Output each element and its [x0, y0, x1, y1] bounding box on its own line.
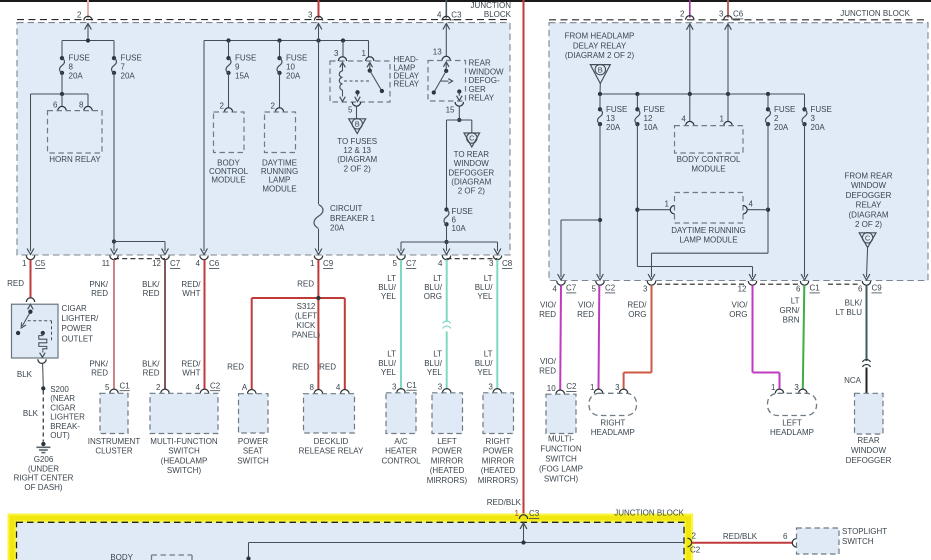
svg-text:BREAK-: BREAK-: [50, 422, 80, 431]
svg-text:(HEADLAMP: (HEADLAMP: [161, 456, 208, 465]
wire pin 5 to triangle B: [356, 106, 358, 119]
connector 1 C5: [22, 256, 46, 269]
junction block 1 body: [17, 23, 510, 255]
label RED power seat wire: [227, 363, 244, 372]
arrow into junction block at connector 2: [85, 24, 92, 41]
connector 2 jb2: [680, 10, 694, 20]
splice S312: [292, 296, 321, 340]
svg-text:CONTROL: CONTROL: [381, 456, 421, 465]
svg-text:FROM REAR: FROM REAR: [845, 172, 893, 181]
svg-text:WINDOW: WINDOW: [851, 446, 887, 455]
wire fuse 8 branch to connector 1 C5: [27, 94, 34, 255]
svg-text:3: 3: [308, 11, 313, 20]
svg-text:FUSE: FUSE: [69, 54, 90, 63]
decklid release relay pin 4: [336, 383, 349, 394]
svg-text:RED: RED: [577, 310, 594, 319]
svg-text:SEAT: SEAT: [243, 447, 263, 456]
svg-text:20A: 20A: [69, 72, 84, 81]
svg-text:DECKLID: DECKLID: [314, 437, 349, 446]
left power mirror pin 3: [438, 382, 451, 393]
svg-text:S312: S312: [297, 302, 316, 311]
svg-text:2: 2: [220, 101, 225, 110]
svg-text:C7: C7: [170, 259, 181, 268]
svg-text:JUNCTION BLOCK: JUNCTION BLOCK: [614, 509, 684, 518]
junction block 2 connector strip dashed line: [549, 19, 928, 21]
svg-text:RED: RED: [227, 363, 244, 372]
svg-text:DEFOGGER: DEFOGGER: [846, 191, 892, 200]
wire pin 15 tee to fuse 6 and triangle C: [447, 106, 472, 209]
svg-text:LT: LT: [484, 274, 493, 283]
svg-text:OUT): OUT): [50, 431, 70, 440]
wire RED feed to connector 2: [87, 0, 89, 18]
svg-text:SWITCH): SWITCH): [167, 466, 202, 475]
svg-text:4: 4: [749, 200, 754, 209]
body control module jb2 pin 4: [681, 114, 694, 125]
svg-text:LT: LT: [387, 274, 396, 283]
svg-text:STOPLIGHT: STOPLIGHT: [842, 527, 887, 536]
svg-text:20A: 20A: [121, 72, 136, 81]
svg-text:RELAY: RELAY: [394, 80, 420, 89]
svg-text:LT: LT: [791, 297, 800, 306]
stoplight switch: [797, 527, 888, 554]
multi-function switch fog lamp switch: [539, 394, 583, 483]
rear window defogger: [846, 393, 892, 465]
svg-text:A/C: A/C: [394, 437, 408, 446]
svg-text:12: 12: [152, 259, 161, 268]
svg-text:RIGHT: RIGHT: [486, 437, 511, 446]
wire bus drops jb2: [600, 94, 805, 122]
label to rear window defogger: [448, 150, 494, 195]
svg-text:MIRRORS): MIRRORS): [427, 476, 468, 485]
svg-text:6: 6: [783, 532, 788, 541]
svg-text:C6: C6: [733, 10, 744, 19]
svg-text:6: 6: [796, 285, 801, 294]
decklid release relay: [299, 394, 364, 456]
wire LT BLU/ORG connector 4 to left power mirror: [424, 260, 447, 390]
wire fuse 12 to daytime running lamp module jb2: [635, 124, 670, 266]
svg-text:RED/: RED/: [181, 359, 201, 368]
svg-text:FUSE: FUSE: [774, 105, 795, 114]
svg-text:WINDOW: WINDOW: [454, 159, 490, 168]
svg-text:3: 3: [719, 10, 724, 19]
svg-text:3: 3: [794, 383, 799, 392]
svg-text:GRN/: GRN/: [780, 306, 801, 315]
connector 3 C8: [489, 256, 513, 269]
connector 5 C2 jb2: [592, 281, 616, 294]
svg-text:TO REAR: TO REAR: [454, 150, 490, 159]
wire LT BLU/YEL connector 5 C7 to ac heater control: [378, 260, 401, 390]
svg-text:SWITCH: SWITCH: [168, 447, 200, 456]
wire fuse 3 to connector 6 C1 jb2: [801, 124, 808, 280]
rear window defogger relay switch: [432, 62, 462, 101]
svg-text:G206: G206: [34, 455, 54, 464]
svg-text:3: 3: [392, 382, 397, 391]
svg-text:(DIAGRAM 2 OF 2): (DIAGRAM 2 OF 2): [565, 51, 635, 60]
svg-text:FUSE: FUSE: [286, 54, 307, 63]
svg-text:12: 12: [738, 285, 747, 294]
svg-text:S200: S200: [50, 385, 69, 394]
svg-text:(DIAGRAM: (DIAGRAM: [451, 177, 491, 186]
svg-text:(HEATED: (HEATED: [430, 466, 465, 475]
body control module jb2 pin 1: [720, 114, 733, 125]
svg-text:BLU/: BLU/: [424, 359, 443, 368]
svg-text:SWITCH: SWITCH: [842, 537, 874, 546]
right power mirror pin 3: [488, 382, 501, 393]
wire bus to fuses 8 and 7: [62, 38, 114, 58]
svg-text:FUSE: FUSE: [644, 105, 665, 114]
svg-text:MULTI-FUNCTION: MULTI-FUNCTION: [150, 437, 218, 446]
svg-text:ORG: ORG: [628, 310, 646, 319]
junction block 2 label: [840, 9, 910, 18]
connector 2 C2 jb3: [688, 532, 701, 555]
svg-text:NCA: NCA: [844, 376, 862, 385]
left power mirror: [427, 393, 468, 485]
connector C7 bracket: [114, 258, 165, 260]
svg-text:5: 5: [592, 285, 597, 294]
svg-text:WHT: WHT: [182, 289, 200, 298]
stoplight switch pin: [792, 539, 796, 547]
body control module jb2: [675, 126, 744, 174]
svg-text:4: 4: [196, 259, 201, 268]
headlamp delay relay coil: [339, 63, 345, 102]
svg-text:RED: RED: [91, 289, 108, 298]
cigar lighter pin: [26, 298, 34, 302]
svg-text:C7: C7: [406, 259, 417, 268]
wire RED/BLK main feed to junction block 3: [487, 0, 524, 516]
svg-text:RELEASE RELAY: RELEASE RELAY: [299, 447, 364, 456]
svg-text:BLOCK: BLOCK: [484, 10, 512, 19]
svg-text:15: 15: [446, 106, 455, 115]
svg-text:5: 5: [348, 106, 353, 115]
svg-text:C7: C7: [566, 284, 577, 293]
svg-text:MULTI-: MULTI-: [548, 434, 574, 443]
svg-text:LEFT: LEFT: [782, 418, 802, 427]
wire fuse 6 to connectors 5 4 3: [398, 224, 501, 254]
junction block 1 label: [471, 1, 512, 19]
svg-text:DEFOGGER: DEFOGGER: [846, 456, 892, 465]
svg-text:FUSE: FUSE: [606, 105, 627, 114]
wire connector 3 to circuit breaker 1: [318, 24, 320, 205]
svg-text:VIO/: VIO/: [578, 301, 595, 310]
connector 6 C1 jb2: [796, 281, 820, 294]
svg-text:C5: C5: [35, 259, 46, 268]
svg-text:RED/BLK: RED/BLK: [487, 498, 522, 507]
svg-text:2 OF 2): 2 OF 2): [344, 164, 371, 173]
ground G206 label: [14, 455, 74, 492]
svg-text:FUSE: FUSE: [811, 105, 832, 114]
svg-text:C3: C3: [529, 509, 540, 518]
svg-text:BODY CONTROL: BODY CONTROL: [677, 155, 741, 164]
label RED decklid wire 8: [292, 363, 309, 372]
ac heater control pin 3 C1: [392, 381, 417, 393]
off-page triangle B jb2: [590, 64, 610, 83]
svg-text:3: 3: [488, 382, 493, 391]
daytime running lamp module pin 2: [271, 101, 284, 112]
wire fuse 13 to connectors 4 and 5 jb2: [558, 124, 604, 280]
svg-text:8: 8: [69, 63, 74, 72]
daytime running lamp module jb2 pin 1: [665, 200, 675, 214]
body control module jb1: [209, 112, 249, 185]
svg-text:4: 4: [437, 11, 442, 20]
svg-text:VIO/: VIO/: [540, 357, 557, 366]
connector 12 C7: [152, 256, 181, 269]
wire BLK S200 to ground: [23, 391, 43, 442]
left headlamp pin 3: [794, 383, 807, 394]
svg-text:(HEATED: (HEATED: [481, 466, 516, 475]
wire fuse 12 to connector 12 jb2: [637, 267, 756, 281]
arrow into junction block at connector 3: [315, 24, 322, 30]
svg-text:HEADLAMP: HEADLAMP: [591, 428, 635, 437]
svg-text:C2: C2: [605, 284, 616, 293]
svg-text:LIGHTER/: LIGHTER/: [62, 314, 100, 323]
wire RED/WHT connector 4 C6 to multi-function switch: [181, 260, 204, 390]
junction block 1 connector strip C3 dashed line: [17, 19, 510, 21]
multi-function switch pin 4 C2: [196, 381, 221, 393]
svg-text:DEFOGGER: DEFOGGER: [448, 168, 494, 177]
svg-text:SWITCH: SWITCH: [237, 456, 269, 465]
svg-text:BRN: BRN: [783, 316, 800, 325]
svg-text:2: 2: [680, 10, 685, 19]
wire VIO/RED connector 4 C7 to fog lamp switch: [539, 285, 561, 390]
svg-text:20A: 20A: [330, 224, 345, 233]
fuse 8 20A: [60, 54, 90, 81]
svg-text:WHT: WHT: [182, 369, 200, 378]
cigar lighter element link: [28, 321, 52, 342]
wire LT BLU/YEL connector 3 C8 to right power mirror: [475, 260, 498, 390]
svg-text:6: 6: [53, 101, 58, 110]
svg-text:CIGAR: CIGAR: [62, 304, 88, 313]
svg-text:13: 13: [606, 114, 615, 123]
svg-text:BLU/: BLU/: [424, 283, 443, 292]
svg-text:FUNCTION: FUNCTION: [540, 444, 582, 453]
svg-text:3: 3: [334, 49, 339, 58]
svg-text:LIGHTER: LIGHTER: [50, 413, 85, 422]
junction block 3 label: [614, 509, 684, 518]
wire BLK cigar lighter to S200: [17, 363, 43, 386]
svg-text:RED/: RED/: [181, 280, 201, 289]
wire break BLK/LT BLU: [863, 360, 871, 367]
svg-text:8: 8: [79, 101, 84, 110]
off-page triangle C jb2: [859, 233, 876, 248]
svg-text:1: 1: [665, 200, 670, 209]
junction block 3 highlighted body: [12, 518, 689, 560]
multi-function switch fog lamp pin 10 C2: [547, 382, 577, 394]
cigar lighter power outlet box: [12, 304, 59, 358]
svg-text:LT BLU: LT BLU: [836, 308, 863, 317]
svg-text:1: 1: [22, 259, 27, 268]
cigar lighter bottom pin: [38, 359, 46, 363]
daytime running lamp module jb2 pin 4: [743, 200, 754, 214]
svg-text:2: 2: [77, 11, 82, 20]
horn relay pin 6: [53, 101, 66, 111]
svg-text:BLK: BLK: [17, 370, 33, 379]
cigar lighter heating element: [39, 331, 47, 357]
connector 2 C3 junction block 1: [77, 11, 92, 21]
svg-text:(FOG LAMP: (FOG LAMP: [539, 464, 583, 473]
wire RED connector 1 C5 to cigar lighter: [7, 260, 30, 298]
svg-text:(UNDER: (UNDER: [28, 464, 59, 473]
arrow into junction block at connector 4 C3: [443, 24, 450, 57]
svg-text:REAR: REAR: [857, 436, 879, 445]
label RED decklid wire 4: [319, 363, 336, 372]
svg-text:1: 1: [362, 49, 367, 58]
wire fuse 2 to connector 3 jb2: [648, 253, 768, 280]
svg-text:11: 11: [102, 259, 111, 268]
svg-text:4: 4: [681, 114, 686, 123]
svg-text:5: 5: [105, 383, 110, 392]
ground G206: [36, 442, 50, 453]
wire RED feed to connector 3: [318, 0, 320, 18]
svg-text:BLU/: BLU/: [378, 359, 397, 368]
left headlamp: [768, 393, 817, 437]
power seat switch pin A: [242, 383, 256, 394]
headlamp delay relay pin 1: [362, 49, 374, 61]
svg-text:LT: LT: [484, 350, 493, 359]
svg-text:10A: 10A: [644, 123, 659, 132]
svg-text:15A: 15A: [235, 72, 250, 81]
svg-text:DELAY RELAY: DELAY RELAY: [573, 41, 627, 50]
svg-text:C8: C8: [502, 259, 513, 268]
svg-text:20A: 20A: [811, 123, 826, 132]
svg-text:8: 8: [309, 383, 314, 392]
svg-text:20A: 20A: [606, 123, 621, 132]
wire LT GRN/BRN connector 6 C1 to left headlamp: [780, 285, 805, 389]
svg-text:MODULE: MODULE: [691, 165, 725, 174]
headlamp delay relay box: [330, 61, 390, 102]
svg-text:LT: LT: [433, 274, 442, 283]
svg-text:RED: RED: [292, 363, 309, 372]
svg-text:2 OF 2): 2 OF 2): [855, 220, 882, 229]
svg-text:OUTLET: OUTLET: [62, 334, 94, 343]
svg-text:CLUSTER: CLUSTER: [95, 447, 133, 456]
svg-text:POWER: POWER: [432, 447, 462, 456]
svg-text:RIGHT CENTER: RIGHT CENTER: [14, 474, 74, 483]
svg-text:C6: C6: [209, 259, 220, 268]
svg-text:B: B: [355, 120, 360, 129]
left headlamp pin 1: [771, 383, 784, 394]
fuse 2 20A: [766, 105, 796, 132]
svg-text:SWITCH: SWITCH: [545, 454, 577, 463]
multi-function switch headlamp switch: [150, 393, 218, 475]
fuse 13 20A: [598, 105, 628, 132]
svg-text:C1: C1: [810, 284, 821, 293]
fuse 3 20A: [802, 105, 832, 132]
svg-text:3: 3: [438, 382, 443, 391]
rear window defogger relay box: [428, 61, 466, 102]
rear window defogger relay label: [469, 59, 505, 103]
connector 3 C3 junction block 1: [308, 11, 323, 21]
svg-text:YEL: YEL: [477, 368, 493, 377]
svg-text:C1: C1: [120, 381, 131, 390]
svg-text:C3: C3: [451, 11, 462, 20]
svg-text:4: 4: [553, 285, 558, 294]
svg-text:MIRROR: MIRROR: [431, 456, 464, 465]
svg-text:PANEL): PANEL): [292, 330, 321, 339]
svg-text:BLK/: BLK/: [845, 299, 863, 308]
wire feed to connector 4 C3: [445, 0, 447, 18]
svg-text:BLU/: BLU/: [475, 283, 494, 292]
svg-text:BLK: BLK: [23, 409, 39, 418]
wire RED feed to connector 3 C6 jb2: [727, 0, 729, 18]
wire fuse 7 to connectors 11 and 12: [111, 73, 169, 255]
connector bracket jb2 bottom: [657, 283, 859, 285]
arrow into jb2 connector 3 C6: [725, 24, 732, 94]
wire VIO feed to connector 2 jb2: [689, 0, 691, 18]
svg-text:1: 1: [515, 509, 520, 518]
wire fuse 2 to daytime running lamp module jb2: [747, 124, 770, 253]
wire fuse 9 to body control module: [228, 73, 230, 108]
svg-text:12 & 13: 12 & 13: [343, 146, 371, 155]
fuse 10 20A: [277, 54, 307, 81]
fuse 7 20A: [112, 54, 142, 81]
decklid release relay pin 8: [309, 383, 322, 394]
svg-text:REAR: REAR: [469, 59, 491, 68]
svg-text:PNK/: PNK/: [89, 280, 108, 289]
svg-text:MIRRORS): MIRRORS): [478, 476, 519, 485]
connector 3 jb2: [643, 281, 656, 294]
svg-text:POWER: POWER: [62, 324, 92, 333]
svg-text:BLK/: BLK/: [142, 359, 160, 368]
junction block 2 body: [549, 23, 928, 281]
svg-text:20A: 20A: [286, 72, 301, 81]
svg-text:KICK: KICK: [297, 321, 316, 330]
headlamp delay relay label: [394, 55, 420, 88]
wire PNK/RED connector 11 to instrument cluster: [89, 260, 114, 390]
svg-text:10A: 10A: [452, 224, 467, 233]
svg-text:FUSE: FUSE: [121, 54, 142, 63]
svg-text:4: 4: [196, 383, 201, 392]
rear window defogger relay pin 13: [433, 48, 451, 61]
svg-text:(DIAGRAM: (DIAGRAM: [849, 210, 889, 219]
wire triangle B to fuse bus jb2: [598, 84, 805, 97]
connector 1 C9: [310, 256, 334, 269]
cigar lighter label: [62, 304, 100, 344]
svg-text:HORN RELAY: HORN RELAY: [49, 155, 101, 164]
instrument cluster pin 5 C1: [105, 381, 130, 393]
svg-text:5: 5: [393, 259, 398, 268]
headlamp delay relay pin 5: [348, 102, 361, 115]
svg-text:GER: GER: [469, 85, 487, 94]
circuit breaker 1 20A: [314, 204, 375, 232]
svg-text:1: 1: [771, 383, 776, 392]
svg-text:RED: RED: [143, 289, 160, 298]
svg-text:(LEFT: (LEFT: [295, 312, 317, 321]
svg-text:3: 3: [615, 383, 620, 392]
label from headlamp delay relay: [565, 32, 635, 60]
connector 5 C7: [393, 256, 417, 269]
wire jb3 internal bus: [246, 540, 683, 560]
wire BLK/RED connector 12 to multi-function switch: [142, 260, 165, 390]
svg-text:BODY: BODY: [110, 553, 133, 560]
wire break LT BLU/ORG: [443, 321, 451, 328]
svg-text:9: 9: [235, 63, 240, 72]
svg-text:MODULE: MODULE: [262, 184, 296, 193]
power seat switch: [237, 394, 269, 466]
svg-text:RELAY: RELAY: [856, 201, 882, 210]
svg-text:BREAKER 1: BREAKER 1: [330, 214, 375, 223]
arrow into jb2 connector 2: [686, 24, 693, 94]
svg-text:POWER: POWER: [238, 437, 268, 446]
svg-text:C: C: [469, 134, 475, 143]
connector C8 bracket: [447, 258, 498, 260]
svg-text:WINDOW: WINDOW: [469, 67, 505, 76]
svg-text:RED: RED: [319, 363, 336, 372]
off-page triangle C jb1: [464, 133, 480, 147]
svg-text:RED: RED: [143, 369, 160, 378]
wire BLK/LT BLU connector 6 C9: [836, 285, 867, 361]
wire bus fuses 9 10 and headlamp delay relay: [88, 38, 369, 254]
svg-text:RED: RED: [7, 279, 24, 288]
